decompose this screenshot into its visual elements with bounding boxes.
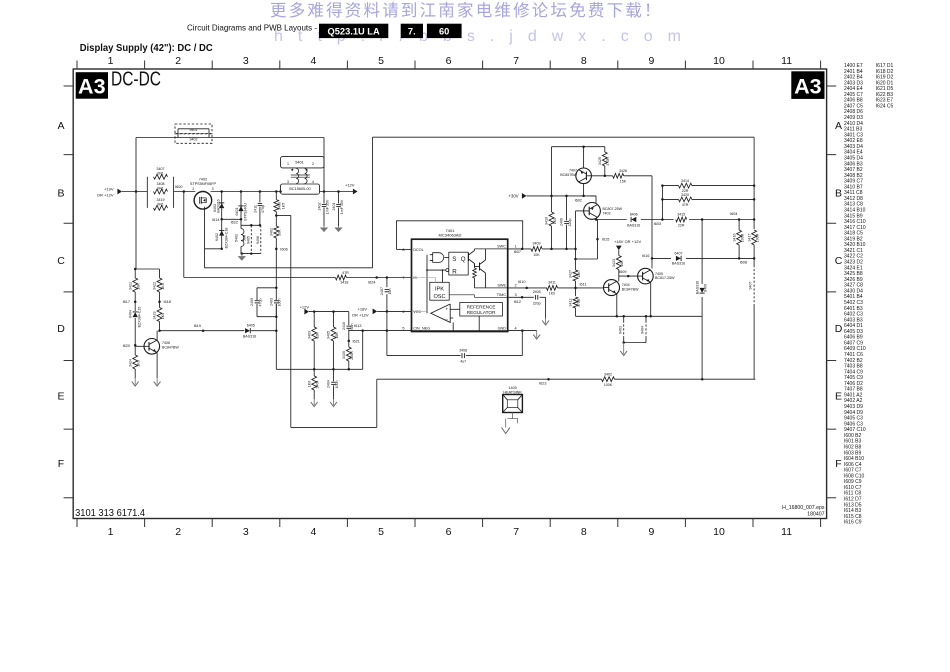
svg-text:Display Supply (42"): DC / DC: Display Supply (42"): DC / DC bbox=[80, 42, 213, 54]
svg-text:I613: I613 bbox=[354, 324, 361, 328]
zener D6402 BZX384-C18 bbox=[221, 219, 223, 249]
wire I615 up to collector rail bbox=[597, 220, 599, 240]
svg-text:I606: I606 bbox=[280, 247, 287, 251]
svg-text:5: 5 bbox=[378, 526, 384, 538]
svg-text:4: 4 bbox=[515, 326, 517, 330]
U7401 IS internal line bbox=[412, 277, 436, 279]
jumper 9405 (dashed) bbox=[250, 225, 252, 253]
svg-text:IS: IS bbox=[413, 276, 417, 280]
svg-text:68n: 68n bbox=[350, 324, 354, 330]
schematic border frame bbox=[73, 69, 826, 519]
header black box Q523.1U LA bbox=[319, 24, 388, 38]
wire top bus riser x136 bbox=[135, 138, 137, 270]
svg-text:STPS5NF06FP: STPS5NF06FP bbox=[190, 182, 217, 186]
svg-text:3418: 3418 bbox=[340, 281, 348, 285]
svg-text:+12V: +12V bbox=[345, 183, 355, 188]
node divider tap bbox=[275, 214, 278, 217]
svg-text:11: 11 bbox=[781, 55, 792, 67]
U7401 reference regulator box bbox=[460, 303, 503, 317]
wire snubber mid rail bbox=[241, 224, 261, 226]
svg-text:3414: 3414 bbox=[681, 179, 689, 183]
svg-text:10: 10 bbox=[713, 526, 725, 538]
wire Q7405 emitter bbox=[650, 282, 652, 317]
wire divider tap to staircase bbox=[276, 215, 291, 217]
svg-text:10K: 10K bbox=[533, 253, 540, 257]
svg-text:TIMC: TIMC bbox=[497, 293, 507, 297]
wire I606 down to C2403 bbox=[275, 249, 277, 300]
wire Q7403 emitter bbox=[595, 196, 597, 203]
wire I619 run bbox=[160, 330, 245, 332]
node I604 bbox=[738, 218, 741, 221]
header black box 60 bbox=[427, 24, 462, 38]
capacitor C2404 100n bbox=[333, 369, 335, 381]
svg-text:+30V: +30V bbox=[509, 193, 519, 198]
svg-text:10K: 10K bbox=[278, 229, 282, 236]
wire divider ground rail bbox=[276, 368, 362, 370]
diode D6403 BAS316 bbox=[221, 192, 223, 220]
wire top bus y137.5 bbox=[136, 137, 324, 139]
svg-text:6402: 6402 bbox=[215, 233, 219, 241]
sheet label A3 left bbox=[76, 72, 108, 99]
jumper 9407 (dashed) bbox=[753, 265, 755, 305]
wire collector rail y219.5 bbox=[596, 219, 627, 221]
resistor R3425 470R bbox=[604, 147, 606, 152]
svg-text:2403: 2403 bbox=[270, 298, 274, 306]
svg-text:100R: 100R bbox=[740, 233, 744, 242]
U7401 OSC to TIMC line bbox=[449, 294, 474, 296]
svg-text:3424: 3424 bbox=[128, 359, 132, 367]
node I623 bbox=[547, 378, 550, 381]
svg-text:A: A bbox=[835, 120, 842, 132]
capacitor C2401 1mF 35V bbox=[338, 192, 340, 204]
svg-text:3421: 3421 bbox=[128, 282, 132, 290]
wire C2409 bottom rail bbox=[257, 316, 276, 318]
wire Q7404 collector / Q7405 base bbox=[618, 276, 620, 281]
svg-text:2404: 2404 bbox=[327, 380, 331, 388]
svg-text:A: A bbox=[57, 120, 64, 132]
svg-text:BC857BW: BC857BW bbox=[560, 173, 577, 177]
svg-text:I607: I607 bbox=[514, 250, 521, 254]
node I619 bbox=[202, 329, 205, 332]
node I603 bbox=[661, 218, 664, 221]
svg-text:S: S bbox=[452, 256, 456, 263]
svg-text:470R: 470R bbox=[606, 157, 610, 166]
wire D6409 rail corner bbox=[701, 315, 703, 317]
svg-text:3422: 3422 bbox=[153, 282, 157, 290]
node I615 bbox=[596, 238, 599, 241]
svg-text:I621: I621 bbox=[353, 339, 360, 343]
ground (Q7406) bbox=[156, 378, 158, 385]
node I606 bbox=[275, 248, 278, 251]
zener D6404 BZX384-C15 bbox=[134, 302, 136, 311]
svg-text:OR +12V: OR +12V bbox=[97, 192, 114, 197]
svg-text:3427: 3427 bbox=[569, 270, 573, 278]
resistor R3417 100R bbox=[752, 230, 757, 245]
node bottom net junction bbox=[701, 378, 704, 381]
transformer T5401 windings bbox=[296, 169, 299, 184]
svg-text:BZX384-C15: BZX384-C15 bbox=[137, 307, 141, 328]
wire Q7407 emitter bbox=[583, 147, 585, 168]
diode D6401 STPS340U bbox=[240, 192, 242, 226]
header black box 7. bbox=[401, 24, 423, 38]
svg-text:D: D bbox=[835, 323, 843, 335]
svg-text:MC34063AD: MC34063AD bbox=[439, 233, 462, 238]
U7401 VCC internal line bbox=[412, 310, 428, 312]
U7401 driver transistor Q1 bbox=[468, 253, 470, 261]
svg-text:Q523.1U LA: Q523.1U LA bbox=[328, 26, 380, 36]
resistor R3422 1K5 bbox=[159, 269, 161, 278]
wire main bus y191 bbox=[174, 191, 196, 193]
node I616 bbox=[651, 257, 654, 260]
svg-text:I617: I617 bbox=[123, 300, 130, 304]
node I610 bbox=[525, 287, 528, 290]
svg-text:1mF 35V: 1mF 35V bbox=[340, 199, 344, 214]
svg-text:2410: 2410 bbox=[342, 322, 346, 330]
jumper 9401 (dashed) bbox=[175, 124, 212, 134]
svg-text:2: 2 bbox=[192, 187, 194, 191]
svg-text:VCC: VCC bbox=[413, 310, 421, 314]
svg-text:6: 6 bbox=[446, 526, 452, 538]
ground (C2401) bbox=[338, 226, 340, 228]
svg-text:1K5: 1K5 bbox=[161, 283, 165, 289]
wire I606 rail continues bbox=[275, 304, 277, 369]
U7401 SR latch bbox=[449, 252, 468, 275]
node I607 bbox=[521, 248, 524, 251]
svg-text:9407: 9407 bbox=[749, 282, 753, 290]
svg-text:4u7: 4u7 bbox=[460, 359, 466, 363]
svg-text:BC847BW: BC847BW bbox=[622, 287, 639, 291]
U7401 GND internal line bbox=[453, 330, 508, 332]
resistor R3416 100R bbox=[738, 220, 740, 231]
svg-text:SWC: SWC bbox=[497, 245, 506, 249]
node I621 bbox=[348, 340, 351, 343]
inductor L5402 bbox=[241, 229, 244, 247]
svg-text:2406: 2406 bbox=[560, 218, 564, 226]
svg-text:2: 2 bbox=[515, 284, 517, 288]
svg-text:I616 C9: I616 C9 bbox=[844, 520, 862, 526]
svg-text:6407: 6407 bbox=[675, 251, 683, 255]
wire 3426 to collector drive bbox=[624, 175, 652, 177]
node 7406 collector junction bbox=[158, 329, 161, 332]
svg-text:Circuit Diagrams and PWB Layou: Circuit Diagrams and PWB Layouts - bbox=[187, 24, 317, 33]
jumper 9402 (dashed) bbox=[175, 134, 212, 144]
heatsink ground bbox=[512, 413, 514, 419]
transformer T5401 secondary box BC15605-00 bbox=[281, 184, 320, 194]
svg-text:220R: 220R bbox=[350, 351, 354, 360]
svg-text:C: C bbox=[57, 255, 65, 267]
svg-text:F: F bbox=[58, 458, 64, 470]
wire CIN_NEG pin5 bbox=[349, 330, 412, 332]
svg-text:7: 7 bbox=[513, 55, 519, 67]
wire GND to filter bbox=[521, 331, 523, 356]
wire I613 drop bbox=[362, 331, 364, 370]
svg-text:0R1: 0R1 bbox=[157, 171, 164, 175]
wire right rail upper bbox=[753, 137, 755, 229]
wire divider top bbox=[135, 268, 159, 270]
svg-text:3416: 3416 bbox=[732, 234, 736, 242]
svg-text:I618: I618 bbox=[164, 300, 171, 304]
svg-text:−: − bbox=[445, 317, 448, 322]
svg-text:+: + bbox=[445, 307, 448, 312]
svg-text:3402: 3402 bbox=[604, 372, 612, 376]
svg-text:1K0: 1K0 bbox=[307, 381, 311, 387]
svg-text:3410: 3410 bbox=[545, 217, 549, 225]
svg-text:B: B bbox=[57, 188, 64, 200]
svg-text:11: 11 bbox=[781, 526, 792, 538]
svg-text:3423: 3423 bbox=[153, 312, 157, 320]
svg-text:DC-DC: DC-DC bbox=[111, 69, 161, 91]
svg-text:I623: I623 bbox=[539, 382, 546, 386]
svg-text:10K: 10K bbox=[335, 332, 339, 339]
ground (R3404) bbox=[313, 399, 315, 405]
svg-text:3415: 3415 bbox=[677, 212, 685, 216]
node I622 bbox=[240, 218, 243, 221]
wire I616 to right rail bbox=[652, 257, 671, 259]
svg-text:10K: 10K bbox=[137, 283, 141, 290]
svg-text:3: 3 bbox=[212, 187, 214, 191]
node I624 bbox=[375, 276, 378, 279]
svg-text:2: 2 bbox=[312, 162, 314, 166]
wire Q7407 collector bbox=[583, 184, 585, 196]
svg-text:BZX384-C18: BZX384-C18 bbox=[224, 228, 228, 249]
resistor R3405 10K bbox=[333, 312, 335, 327]
svg-text:10K: 10K bbox=[620, 260, 624, 267]
svg-text:2407: 2407 bbox=[380, 287, 384, 295]
svg-text:BAS316: BAS316 bbox=[695, 281, 699, 294]
svg-text:7: 7 bbox=[402, 276, 404, 280]
svg-text:5401: 5401 bbox=[295, 160, 303, 164]
svg-text:2: 2 bbox=[175, 55, 181, 67]
wire Q7406 emitter bbox=[156, 352, 158, 378]
svg-text:3405: 3405 bbox=[327, 331, 331, 339]
resistor R3404 1K0 bbox=[313, 369, 315, 376]
svg-text:CIN_NEG: CIN_NEG bbox=[413, 327, 430, 331]
svg-text:4: 4 bbox=[310, 55, 316, 67]
node I612 bbox=[521, 296, 524, 299]
svg-text:I615: I615 bbox=[602, 238, 609, 242]
wire SWC pin1 bbox=[508, 248, 531, 250]
svg-text:100K: 100K bbox=[604, 383, 613, 387]
svg-text:REFERENCE: REFERENCE bbox=[467, 304, 496, 309]
svg-text:1mF 35V: 1mF 35V bbox=[326, 199, 330, 214]
capacitor C2409 470p bbox=[255, 300, 260, 302]
svg-text:3420: 3420 bbox=[681, 193, 689, 197]
svg-text:82K: 82K bbox=[316, 332, 320, 339]
svg-text:IPK: IPK bbox=[435, 286, 444, 292]
svg-text:7403: 7403 bbox=[603, 211, 611, 215]
svg-text:2402: 2402 bbox=[317, 203, 321, 211]
wire timing node branch bbox=[575, 249, 577, 268]
svg-text:3417: 3417 bbox=[747, 234, 751, 242]
wire Q7403 collector bbox=[595, 218, 597, 221]
node junction 6409 top bbox=[701, 218, 704, 221]
svg-text:I619: I619 bbox=[194, 324, 201, 328]
svg-text:D: D bbox=[57, 323, 65, 335]
svg-text:2411: 2411 bbox=[253, 205, 257, 213]
node I614 bbox=[220, 218, 223, 221]
resistor R3406 1K5 bbox=[275, 192, 277, 200]
svg-text:5402: 5402 bbox=[235, 234, 239, 242]
wire jumper ground link bbox=[624, 342, 646, 344]
jumper 9406 (dashed) bbox=[260, 225, 262, 253]
svg-text:100n: 100n bbox=[278, 299, 282, 307]
svg-text:I603: I603 bbox=[654, 222, 661, 226]
svg-text:3403: 3403 bbox=[307, 331, 311, 339]
capacitor C2407 10n bbox=[385, 289, 390, 291]
svg-text:I600: I600 bbox=[175, 185, 182, 189]
ruler row ticks bbox=[64, 85, 74, 87]
svg-text:3: 3 bbox=[515, 293, 517, 297]
wire GND pin4 bbox=[508, 330, 537, 332]
wire gate net bottom run bbox=[205, 267, 373, 269]
wire gate net left box edge bbox=[372, 137, 374, 268]
svg-text:6: 6 bbox=[402, 310, 404, 314]
node I600 bbox=[183, 190, 186, 193]
svg-text:E: E bbox=[57, 390, 64, 402]
svg-text:100R: 100R bbox=[755, 233, 759, 242]
ruler column ticks bbox=[76, 61, 78, 70]
resistor R3410 1K0 bbox=[551, 196, 553, 212]
capacitor C2406 220p bbox=[566, 196, 568, 221]
svg-text:I616: I616 bbox=[642, 254, 649, 258]
node bus at transformer bbox=[279, 190, 282, 193]
svg-text:47R: 47R bbox=[682, 203, 689, 207]
U7401 internal SWC rail bbox=[475, 248, 508, 250]
wire DCOL loop bbox=[397, 248, 412, 250]
ground (snubber) bbox=[241, 254, 243, 257]
svg-text:100n: 100n bbox=[335, 381, 339, 389]
node I602 bbox=[582, 195, 585, 198]
wire IS sense run (I600 down and right to IC pin7) bbox=[183, 192, 185, 278]
node rail right bbox=[753, 218, 756, 221]
wire TIMC pin3 bbox=[508, 296, 534, 298]
wire Q7407 base bbox=[591, 175, 612, 177]
svg-text:5: 5 bbox=[402, 327, 404, 331]
wire TIMC to ground bbox=[540, 296, 546, 298]
wire SWC to timing node bbox=[542, 248, 575, 250]
svg-text:Q: Q bbox=[461, 256, 466, 263]
wire Q7402 gate drive bbox=[204, 207, 206, 249]
svg-text:22R: 22R bbox=[678, 223, 685, 227]
svg-text:SWE: SWE bbox=[497, 284, 506, 288]
node I611 bbox=[574, 287, 577, 290]
svg-text:R: R bbox=[452, 269, 457, 276]
svg-text:9: 9 bbox=[648, 526, 654, 538]
svg-text:1K0: 1K0 bbox=[549, 292, 555, 296]
wire snubber ground rail bbox=[241, 253, 261, 255]
svg-text:2401: 2401 bbox=[332, 203, 336, 211]
wire 7407 top rail bbox=[552, 146, 605, 148]
wire Q7403 base bbox=[576, 210, 584, 212]
svg-text:10n: 10n bbox=[388, 289, 392, 295]
svg-text:2408: 2408 bbox=[459, 348, 467, 352]
svg-text:C: C bbox=[835, 255, 843, 267]
svg-text:I609: I609 bbox=[619, 270, 626, 274]
svg-text:220p: 220p bbox=[568, 219, 572, 227]
U7401 AND gate bbox=[433, 253, 444, 263]
svg-text:I610: I610 bbox=[518, 280, 525, 284]
svg-text:10: 10 bbox=[713, 55, 725, 67]
svg-text:7.: 7. bbox=[408, 26, 416, 36]
svg-text:1K0: 1K0 bbox=[553, 218, 557, 224]
capacitor C2410 68n bbox=[348, 312, 350, 326]
transformer T5401 primary box bbox=[281, 157, 325, 168]
svg-text:A3: A3 bbox=[794, 74, 822, 98]
wire C2409 top stub bbox=[257, 287, 276, 289]
svg-text:15K: 15K bbox=[620, 180, 627, 184]
svg-text:3409: 3409 bbox=[533, 242, 541, 246]
wire I603 riser bbox=[661, 186, 663, 220]
node I613 bbox=[361, 329, 364, 332]
svg-text:2405: 2405 bbox=[533, 290, 541, 294]
svg-text:I624 C5: I624 C5 bbox=[876, 103, 894, 109]
svg-text:1K5: 1K5 bbox=[281, 203, 285, 209]
node junction on bus at x136 bbox=[135, 190, 138, 193]
svg-text:1: 1 bbox=[108, 526, 114, 538]
svg-text:I608: I608 bbox=[740, 261, 747, 265]
svg-text:3401: 3401 bbox=[270, 228, 274, 236]
jumper 9403 (dashed) bbox=[622, 315, 625, 318]
U7401 comparator bbox=[431, 304, 450, 322]
resistor R3413 10K bbox=[618, 252, 620, 256]
svg-text:3: 3 bbox=[243, 55, 249, 67]
svg-text:3: 3 bbox=[243, 526, 249, 538]
wire bottom net y379 bbox=[377, 378, 602, 380]
U7401 driver transistor Q2 bbox=[479, 263, 481, 271]
svg-text:3425: 3425 bbox=[598, 157, 602, 165]
IC U7401 MC34063AD body bbox=[412, 239, 508, 331]
svg-text:BAS316: BAS316 bbox=[672, 262, 685, 266]
svg-text:2: 2 bbox=[175, 526, 181, 538]
svg-text:0R1: 0R1 bbox=[157, 186, 164, 190]
sheet label A3 right bbox=[791, 71, 824, 99]
svg-text:H_16800_007.eps: H_16800_007.eps bbox=[782, 505, 825, 511]
svg-text:3413: 3413 bbox=[612, 259, 616, 267]
svg-text:3404: 3404 bbox=[316, 381, 320, 389]
svg-text:6406: 6406 bbox=[630, 212, 638, 216]
wire left rail x551 bbox=[551, 147, 553, 196]
svg-text:9402: 9402 bbox=[190, 138, 198, 142]
svg-text:+18V: +18V bbox=[358, 307, 368, 312]
svg-text:470R: 470R bbox=[577, 298, 581, 307]
jumper 9404 (dashed) bbox=[645, 315, 648, 318]
svg-text:6: 6 bbox=[446, 55, 452, 67]
node I617 bbox=[134, 300, 137, 303]
svg-text:3411: 3411 bbox=[548, 281, 556, 285]
wire Q7406 collector bbox=[156, 331, 158, 341]
svg-text:BC847BW: BC847BW bbox=[162, 345, 179, 349]
svg-text:STPS340U: STPS340U bbox=[243, 203, 247, 221]
svg-text:+18V OR +12V: +18V OR +12V bbox=[614, 239, 641, 244]
svg-text:6405: 6405 bbox=[247, 324, 255, 328]
svg-text:3101 313 6171.4: 3101 313 6171.4 bbox=[75, 508, 145, 519]
node I618 bbox=[158, 300, 161, 303]
U7401 internal SWE rail bbox=[475, 287, 508, 289]
svg-text:4: 4 bbox=[312, 180, 314, 184]
svg-text:180407: 180407 bbox=[807, 512, 824, 518]
svg-text:1K0: 1K0 bbox=[161, 313, 165, 319]
wire emitter ground rail bbox=[576, 315, 703, 317]
svg-text:9406: 9406 bbox=[256, 236, 260, 244]
svg-text:6409: 6409 bbox=[703, 284, 707, 292]
svg-text:9403: 9403 bbox=[618, 326, 622, 334]
wire transformer riser x324 bbox=[323, 138, 325, 192]
svg-text:1: 1 bbox=[287, 162, 289, 166]
svg-text:+19V: +19V bbox=[104, 186, 114, 191]
svg-text:3: 3 bbox=[287, 180, 289, 184]
svg-text:7: 7 bbox=[513, 526, 519, 538]
svg-text:BAS316: BAS316 bbox=[627, 224, 640, 228]
